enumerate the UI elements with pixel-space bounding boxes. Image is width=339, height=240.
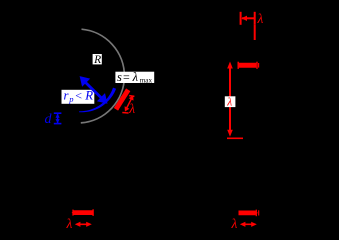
leader line down <box>254 25 256 40</box>
svg-text:p: p <box>68 94 73 104</box>
top lambda length marker <box>241 12 255 40</box>
bottom-right wavepacket <box>239 210 259 217</box>
vertical lambda dimension line <box>227 62 243 139</box>
svg-text:<: < <box>75 89 82 103</box>
svg-text:R: R <box>93 54 101 66</box>
svg-text:λ: λ <box>231 216 238 231</box>
R label <box>93 54 102 66</box>
bottom reference line <box>227 137 243 139</box>
r_p < R label <box>62 89 95 104</box>
bottom-left wavepacket <box>72 209 94 216</box>
bottom-left lambda double arrow <box>75 222 92 227</box>
right wavepacket (horizontal bar) <box>238 62 258 69</box>
red wavepacket on sphere surface (tangent bar) <box>114 89 130 110</box>
svg-text:λ: λ <box>66 216 73 231</box>
red lambda in white box on dimension line <box>225 96 236 108</box>
svg-text:=: = <box>123 70 130 84</box>
red lambda dimension arrow beside wavepacket <box>122 95 134 113</box>
svg-text:max: max <box>140 76 153 84</box>
svg-text:λ: λ <box>257 11 264 26</box>
svg-text:d: d <box>45 112 53 127</box>
blue d-gap dimension glyph (updown arrow with end bars) <box>54 113 62 123</box>
s = lambda_max label <box>115 70 154 85</box>
svg-text:λ: λ <box>132 70 139 84</box>
bottom-right lambda double arrow <box>240 222 257 227</box>
svg-text:R: R <box>84 89 93 103</box>
inner arc (photon shell, radius r_p) <box>79 88 116 113</box>
svg-text:λ: λ <box>226 96 232 108</box>
svg-text:s: s <box>117 70 122 84</box>
svg-text:λ: λ <box>128 101 135 116</box>
sphere boundary arc (radius R) <box>81 29 125 123</box>
radial double arrow r_p (center to inner arc) <box>80 76 108 104</box>
